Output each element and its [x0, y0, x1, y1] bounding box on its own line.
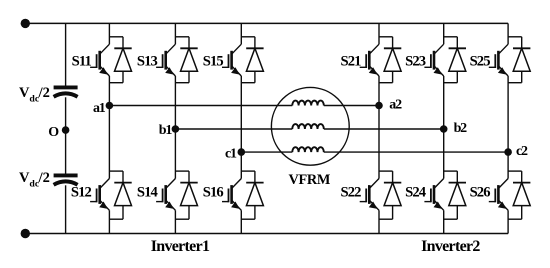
- svg-text:S24: S24: [405, 185, 427, 201]
- transistor S25 (IGBT): [489, 44, 508, 76]
- svg-text:S12: S12: [71, 185, 92, 201]
- diode D21a (anti-parallel with S21): [379, 37, 401, 83]
- transistor S11 (IGBT): [90, 44, 109, 76]
- svg-text:b1: b1: [159, 123, 173, 138]
- node a2: [375, 102, 383, 110]
- wire: phase node to collector of S16: [240, 152, 242, 178]
- wire: emitter of S11 to phase node: [108, 76, 110, 106]
- wire: emitter of S26 to bottom rail: [507, 210, 509, 233]
- svg-text:S14: S14: [137, 185, 159, 201]
- node c2: [504, 148, 512, 156]
- svg-text:S13: S13: [137, 54, 158, 70]
- wire: phase node to collector of S14: [174, 129, 176, 179]
- node c1: [238, 148, 246, 156]
- svg-text:S22: S22: [340, 185, 361, 201]
- wire: top rail to collector of S25: [507, 23, 509, 44]
- wire: emitter of S24 to bottom rail: [443, 210, 445, 233]
- svg-text:S15: S15: [203, 54, 224, 70]
- transistor S22 (IGBT): [360, 179, 379, 211]
- diode D16a (anti-parallel with S16): [241, 171, 263, 219]
- inductor: VFRM phase-a winding: [292, 101, 323, 106]
- svg-text:Inverter2: Inverter2: [421, 238, 480, 255]
- wire: emitter of S25 to phase node: [507, 76, 509, 152]
- diode D22a (anti-parallel with S22): [379, 171, 401, 219]
- transistor S23 (IGBT): [424, 44, 443, 76]
- label: Vdc/2 (upper): [19, 85, 50, 105]
- transistor S21 (IGBT): [360, 44, 379, 76]
- wire: phase c1 line (c1 to motor): [241, 151, 292, 153]
- svg-text:S25: S25: [470, 54, 491, 70]
- transistor S26 (IGBT): [489, 179, 508, 211]
- node: DC+ input terminal: [21, 19, 30, 28]
- wire: phase b2 line (motor to b2): [324, 128, 444, 130]
- transistor S14 (IGBT): [156, 179, 175, 211]
- svg-text:O: O: [48, 125, 59, 140]
- wire: emitter of S13 to phase node: [174, 76, 176, 129]
- svg-text:/2: /2: [38, 85, 50, 101]
- capacitor C1 (Vdc/2, upper dc-link): [54, 87, 78, 96]
- transistor S15 (IGBT): [222, 44, 241, 76]
- svg-text:b2: b2: [454, 121, 468, 136]
- node O (dc-link midpoint): [62, 126, 70, 134]
- diode D14a (anti-parallel with S14): [175, 171, 197, 219]
- diode D23a (anti-parallel with S23): [444, 37, 466, 83]
- wire: emitter of S12 to bottom rail: [108, 210, 110, 233]
- machine VFRM (stator circle): [271, 87, 349, 165]
- transistor S16 (IGBT): [222, 179, 241, 211]
- svg-text:S11: S11: [72, 54, 92, 70]
- svg-text:/2: /2: [38, 170, 50, 186]
- wire: positive DC bus (top rail): [25, 22, 508, 24]
- wire: phase node to collector of S24: [443, 129, 445, 179]
- wire: phase b1 line (b1 to motor): [175, 128, 292, 130]
- wire: phase node to collector of S22: [378, 106, 380, 179]
- transistor S12 (IGBT): [90, 179, 109, 211]
- diode D11a (anti-parallel with S11): [109, 37, 131, 83]
- node a1: [106, 102, 114, 110]
- wire: node O to capacitor C2: [65, 130, 67, 174]
- wire: emitter of S16 to bottom rail: [240, 210, 242, 233]
- wire: capacitor C2 to bottom rail: [65, 185, 67, 233]
- wire: top rail to collector of S23: [443, 23, 445, 44]
- svg-text:S23: S23: [405, 54, 426, 70]
- svg-text:V: V: [19, 170, 30, 186]
- node: DC- input terminal: [21, 229, 30, 238]
- transistor S13 (IGBT): [156, 44, 175, 76]
- label: Vdc/2 (lower): [19, 170, 50, 190]
- wire: top rail to collector of S13: [174, 23, 176, 44]
- svg-text:S26: S26: [470, 185, 491, 201]
- wire: emitter of S22 to bottom rail: [378, 210, 380, 233]
- wire: top rail to collector of S11: [108, 23, 110, 44]
- svg-text:S16: S16: [203, 185, 224, 201]
- wire: phase c2 line (motor to c2): [324, 151, 508, 153]
- svg-text:c2: c2: [516, 144, 528, 159]
- wire: emitter of S14 to bottom rail: [174, 210, 176, 233]
- svg-text:c1: c1: [225, 147, 237, 162]
- wire: emitter of S23 to phase node: [443, 76, 445, 129]
- wire: emitter of S15 to phase node: [240, 76, 242, 152]
- wire: negative DC bus (bottom rail): [25, 233, 508, 235]
- diode D26a (anti-parallel with S26): [508, 171, 530, 219]
- wire: phase a2 line (motor to a2): [324, 105, 379, 107]
- node b2: [440, 125, 448, 133]
- svg-text:V: V: [19, 85, 30, 101]
- svg-text:VFRM: VFRM: [288, 172, 330, 188]
- inductor: VFRM phase-c winding: [292, 147, 323, 152]
- diode D12a (anti-parallel with S12): [109, 171, 131, 219]
- node b1: [172, 125, 180, 133]
- svg-text:Inverter1: Inverter1: [151, 238, 210, 255]
- svg-text:S21: S21: [340, 54, 361, 70]
- svg-text:a2: a2: [389, 98, 402, 113]
- wire: top rail to capacitor C1: [65, 23, 67, 86]
- wire: emitter of S21 to phase node: [378, 76, 380, 106]
- wire: phase a1 line (a1 to motor): [109, 105, 292, 107]
- inductor: VFRM phase-b winding: [292, 124, 323, 129]
- wire: phase node to collector of S12: [108, 106, 110, 179]
- wire: capacitor C1 to node O: [65, 97, 67, 130]
- transistor S24 (IGBT): [424, 179, 443, 211]
- diode D13a (anti-parallel with S13): [175, 37, 197, 83]
- diode D25a (anti-parallel with S25): [508, 37, 530, 83]
- wire: top rail to collector of S21: [378, 23, 380, 44]
- diode D24a (anti-parallel with S24): [444, 171, 466, 219]
- wire: phase node to collector of S26: [507, 152, 509, 178]
- diode D15a (anti-parallel with S15): [241, 37, 263, 83]
- capacitor C2 (Vdc/2, lower dc-link): [54, 175, 78, 184]
- wire: top rail to collector of S15: [240, 23, 242, 44]
- svg-text:a1: a1: [93, 101, 106, 116]
